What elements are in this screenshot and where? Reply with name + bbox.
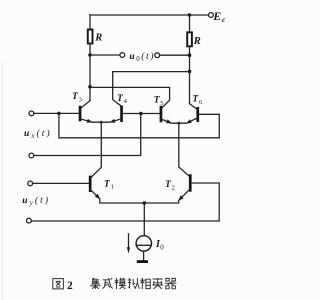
transistor T1 emitter (90, 189, 144, 203)
wire ux lower to T4-T5 bases (34, 114, 141, 156)
label u0(t) (129, 51, 155, 63)
svg-text:R: R (94, 33, 102, 44)
junction T1-T2 emitters (143, 201, 147, 205)
wire output right (160, 54, 190, 56)
svg-text:2: 2 (172, 185, 175, 192)
wire T3 collector to node A (80, 101, 90, 109)
caption char 乘 (152, 278, 163, 289)
label R1 value R (94, 33, 102, 44)
label T5 (154, 96, 164, 107)
wire output left (90, 54, 120, 56)
wire left branch node A vertical (89, 44, 91, 101)
caption char 模 (115, 278, 126, 289)
caption char 相 (140, 278, 150, 289)
label T3 (72, 92, 82, 103)
wire quad left emitters to T1 collector (90, 122, 101, 178)
transistor T4 emitter (101, 119, 121, 123)
wire T6 collector to node B (190, 104, 198, 110)
svg-text:0: 0 (160, 244, 164, 252)
label T6 (192, 95, 203, 106)
svg-text:R: R (193, 36, 201, 47)
svg-text:uy(t): uy(t) (22, 195, 50, 207)
label T1 (104, 179, 114, 190)
node output left terminal (120, 53, 125, 58)
page edge line (1, 62, 3, 300)
svg-text:5: 5 (160, 100, 163, 107)
svg-text:1: 1 (111, 184, 114, 191)
svg-text:6: 6 (199, 99, 203, 106)
junction node B / output wire (188, 53, 192, 57)
wire T4 collector cross-coupling to node B (113, 72, 190, 107)
junction T3 base / T6 link (57, 112, 61, 116)
junction node B / T4 collector wire (188, 70, 192, 74)
transistor T6 bar (196, 107, 199, 122)
svg-text:c: c (222, 15, 226, 24)
svg-text:3: 3 (79, 96, 82, 103)
transistor T1 bar (89, 176, 92, 192)
wire T5 collector cross-coupling to node A (90, 87, 170, 108)
wire T4 base to T5 base (123, 113, 160, 115)
wire T1 base input (33, 182, 89, 184)
wire right resistor top lead (189, 15, 191, 32)
node uy upper terminal (28, 181, 33, 186)
junction T4-T5 base / ux lower (139, 112, 143, 116)
junction quad left emitters (100, 121, 103, 124)
node ux upper terminal (29, 111, 34, 116)
resistor R1 (left R) (88, 30, 93, 44)
svg-text:E: E (212, 9, 221, 23)
wire quad right emitters to T2 collector (179, 123, 190, 177)
svg-text:u0(t): u0(t) (129, 51, 155, 63)
current source I0 circle (136, 236, 151, 251)
wire left resistor top lead (89, 15, 91, 30)
junction node A / T5 collector wire (88, 85, 92, 89)
transistor T3 bar (79, 106, 82, 122)
wire current source to ground (143, 251, 145, 260)
label uy(t) (22, 195, 50, 207)
junction top rail / right branch (188, 13, 192, 17)
wire emitter junction to current source (143, 203, 145, 236)
current direction arrow (127, 234, 130, 254)
svg-text:4: 4 (124, 98, 128, 105)
junction quad right emitters (177, 122, 180, 125)
label Ec (212, 9, 226, 24)
caption figure number 2 (67, 280, 73, 292)
node output right terminal (155, 53, 160, 58)
node Ec terminal (209, 13, 214, 18)
wire T3 base input (34, 112, 79, 114)
label T2 (165, 180, 175, 191)
transistor T4 bar (120, 106, 123, 123)
caption char 器 (165, 278, 176, 288)
ground (137, 260, 148, 263)
wire T3 base to T6 base link (59, 113, 219, 137)
caption char 图 (53, 279, 64, 289)
transistor T2 bar (189, 174, 192, 192)
caption char 成 (103, 278, 113, 289)
svg-text:ux(t): ux(t) (24, 128, 52, 140)
wire T2 base loop to uy lower (31, 183, 219, 221)
label ux(t) (24, 128, 52, 140)
resistor R2 (right R) (187, 32, 192, 46)
caption char 集 (90, 278, 101, 289)
wire top supply rail (90, 14, 209, 16)
transistor T5 bar (160, 106, 163, 123)
label I0 (155, 239, 164, 252)
label R2 value R (193, 36, 201, 47)
transistor T2 emitter (144, 189, 190, 203)
label T4 (117, 94, 128, 105)
transistor T6 emitter (179, 118, 198, 124)
node uy lower terminal (27, 218, 32, 223)
caption char 拟 (128, 278, 140, 289)
wire right branch node B vertical (189, 46, 191, 103)
transistor T3 emitter (80, 119, 101, 123)
transistor T5 emitter (161, 119, 179, 123)
junction node A / output wire (88, 53, 92, 57)
svg-text:2: 2 (67, 280, 73, 292)
node ux lower terminal (29, 153, 34, 158)
